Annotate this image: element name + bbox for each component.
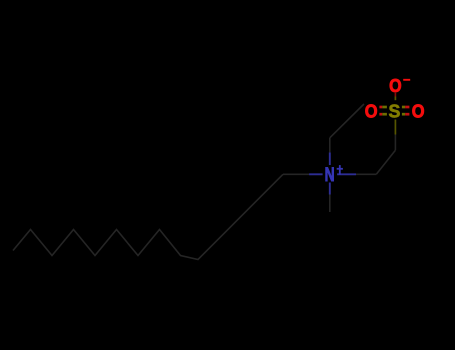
svg-text:O: O <box>412 101 425 122</box>
charge plus on N <box>337 165 343 175</box>
wire: CH2-CH2 diagonal up to sulfur carbon <box>376 150 395 174</box>
S=O left double bond bottom bar <box>379 113 382 116</box>
wire: S-O(minus) bond olive half <box>394 97 396 101</box>
S=O right double bond bottom bar <box>402 113 405 116</box>
wire: N up bond blue half <box>329 152 331 165</box>
S=O left double bond top bar <box>379 106 382 109</box>
wire: C-S bond black half <box>394 135 396 151</box>
wire: N left bond blue half <box>309 173 323 175</box>
wire: C14 alkyl chain zigzag <box>13 174 283 259</box>
svg-text:S: S <box>388 100 400 122</box>
wire: N right bond blue half <box>337 173 356 175</box>
wire: N left bond black half <box>283 173 309 175</box>
S=O right double bond top bar <box>402 106 405 109</box>
svg-text:N: N <box>325 164 335 186</box>
charge minus on O <box>403 79 410 81</box>
wire: 45deg bond from up-CH2 to O region <box>330 104 364 138</box>
wire: N up bond black half <box>329 138 331 153</box>
svg-text:O: O <box>365 101 378 122</box>
wire: N down bond blue half <box>329 183 331 195</box>
wire: S-O(minus) bond red half <box>394 93 396 97</box>
wire: C-S bond olive half <box>394 120 396 135</box>
svg-text:O: O <box>389 75 402 96</box>
wire: N down bond black half <box>329 195 331 213</box>
wire: N right bond black half <box>356 173 376 175</box>
